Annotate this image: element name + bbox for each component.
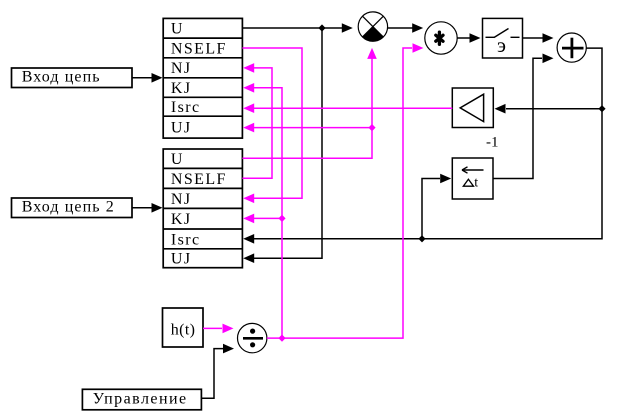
svg-text:KJ: KJ [171, 80, 192, 97]
svg-text:Вход цепь 2: Вход цепь 2 [22, 199, 115, 216]
svg-text:Isrc: Isrc [171, 231, 201, 248]
svg-text:h(t): h(t) [171, 322, 196, 339]
svg-text:KJ: KJ [171, 211, 192, 228]
svg-text:Вход цепь: Вход цепь [22, 69, 101, 86]
svg-text:U: U [171, 21, 184, 38]
svg-text:UJ: UJ [171, 251, 192, 268]
svg-text:NSELF: NSELF [171, 40, 227, 57]
svg-text:э: э [497, 33, 506, 57]
svg-text:Управление: Управление [93, 390, 188, 407]
svg-text:NSELF: NSELF [171, 171, 227, 188]
svg-text:NJ: NJ [171, 60, 192, 77]
svg-text:t: t [474, 176, 478, 191]
svg-text:Isrc: Isrc [171, 99, 201, 116]
svg-text:UJ: UJ [171, 120, 192, 137]
svg-text:U: U [171, 151, 184, 168]
svg-text:-1: -1 [486, 135, 499, 151]
svg-text:NJ: NJ [171, 191, 192, 208]
